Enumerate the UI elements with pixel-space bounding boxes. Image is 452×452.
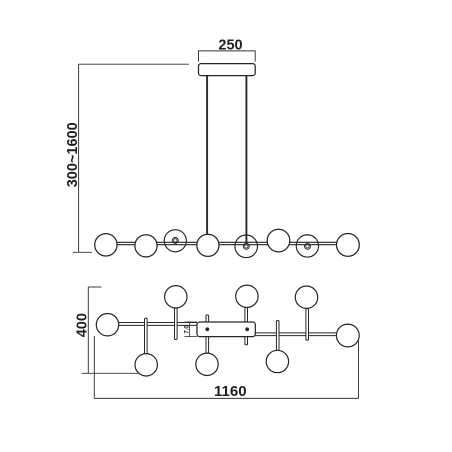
dimension 250 line [198, 51, 256, 62]
stem S5 upper (plan view) [245, 307, 248, 323]
stem S2 (plan view) [175, 308, 178, 340]
svg-text:250: 250 [218, 37, 242, 53]
sphere C6 (side view) [267, 229, 290, 252]
left arm (plan view) [119, 323, 197, 326]
suspension rod right [245, 76, 247, 244]
horizontal bar (side view) [117, 242, 337, 244]
dimension 1160 lines [94, 336, 358, 398]
suspension rod left [206, 76, 208, 236]
stem S5 lower nub (plan view) [245, 336, 248, 345]
sphere P5 (plan view) [236, 285, 258, 307]
stem S6 (plan view) [276, 321, 279, 351]
svg-text:300~1600: 300~1600 [65, 122, 81, 187]
sphere C1 (side view) [95, 234, 117, 256]
svg-text:7.0: 7.0 [184, 325, 190, 334]
svg-text:1160: 1160 [214, 383, 247, 400]
ceiling canopy (side view) [199, 64, 256, 76]
canopy box (plan view) [197, 322, 255, 337]
sphere P7 (plan view) [295, 286, 317, 308]
stem S1 (plan view) [145, 318, 148, 355]
sphere C5 with socket ring (side view) [235, 235, 258, 258]
screw left (plan view) [205, 327, 209, 331]
dimension 300~1600 lines [73, 64, 189, 252]
sphere P8 (plan view) [336, 324, 359, 347]
mini dimension 7.0 lines [185, 322, 198, 337]
sphere C2 (side view) [135, 235, 157, 257]
svg-text:400: 400 [74, 313, 90, 337]
sphere C4 (side view) [197, 234, 219, 256]
sphere P4 (plan view) [196, 353, 218, 375]
sphere C8 (side view) [337, 234, 360, 257]
stem S4 upper nub (plan view) [206, 315, 209, 324]
sphere P2 (plan view) [135, 354, 157, 376]
sphere P3 (plan view) [165, 286, 187, 308]
dimension 400 lines [82, 287, 139, 373]
right arm (plan view) [255, 333, 336, 336]
sphere P1 (plan view) [96, 314, 118, 336]
sphere P6 (plan view) [266, 350, 288, 372]
sphere C7 with socket ring (side view) [296, 235, 318, 257]
stem S7 (plan view) [306, 309, 309, 341]
sphere C3 with socket ring (side view) [164, 230, 186, 252]
screw right (plan view) [245, 327, 249, 331]
stem S4 lower (plan view) [206, 336, 209, 354]
